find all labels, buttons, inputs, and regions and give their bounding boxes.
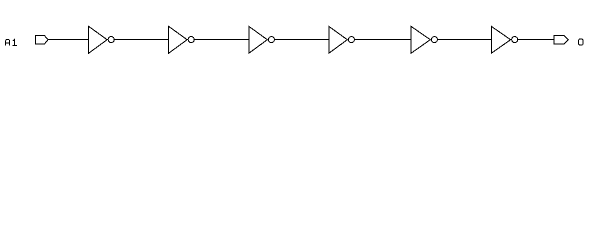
wire xyxy=(48,39,89,41)
wire xyxy=(438,39,492,41)
port O xyxy=(554,36,568,45)
port A1 xyxy=(36,36,49,45)
inverter U2 xyxy=(169,26,195,53)
node A1 xyxy=(6,39,17,45)
wire xyxy=(115,39,169,41)
inverter U4 xyxy=(329,26,355,53)
wire xyxy=(275,39,329,41)
inverter U6 xyxy=(491,26,517,53)
wire xyxy=(195,39,249,41)
inverter U3 xyxy=(249,26,275,53)
wire xyxy=(355,39,411,41)
inverter U5 xyxy=(411,26,437,53)
wire xyxy=(518,39,554,41)
node O xyxy=(579,39,583,45)
inverter U1 xyxy=(89,26,115,53)
